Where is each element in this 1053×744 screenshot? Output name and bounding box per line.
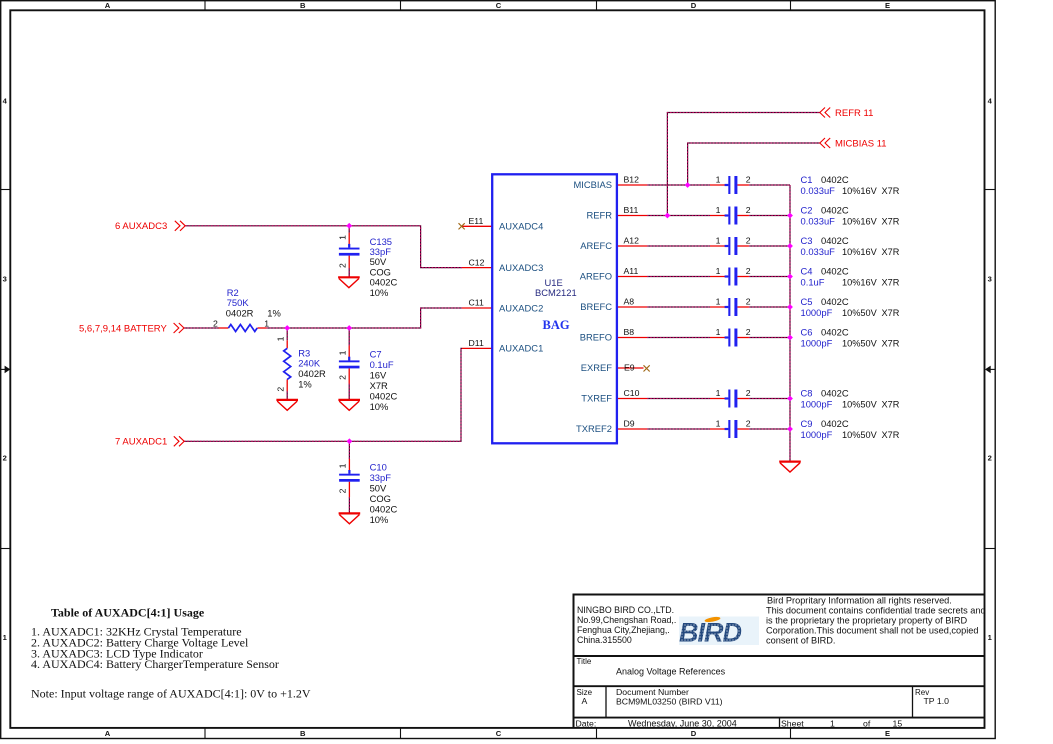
svg-text:X7R: X7R <box>882 430 900 440</box>
svg-text:3: 3 <box>3 275 7 284</box>
svg-text:COG: COG <box>370 493 391 504</box>
svg-text:X7R: X7R <box>882 247 900 257</box>
svg-text:Sheet: Sheet <box>781 718 804 728</box>
svg-text:Date:: Date: <box>576 718 597 728</box>
svg-text:1: 1 <box>830 718 835 728</box>
svg-text:0402C: 0402C <box>821 388 849 399</box>
svg-text:is the proprietary the proprie: is the proprietary the proprietary prope… <box>766 616 968 626</box>
svg-text:of: of <box>863 718 871 728</box>
svg-text:B: B <box>300 729 306 738</box>
svg-text:10%16V: 10%16V <box>842 216 878 226</box>
svg-text:B12: B12 <box>624 175 640 185</box>
svg-text:10%: 10% <box>370 287 389 298</box>
svg-text:1000pF: 1000pF <box>801 307 833 318</box>
svg-text:33pF: 33pF <box>370 472 392 483</box>
svg-text:2: 2 <box>746 236 751 246</box>
svg-text:50V: 50V <box>370 482 387 493</box>
svg-text:BREFC: BREFC <box>580 301 612 312</box>
svg-text:TXREF: TXREF <box>581 393 612 404</box>
svg-text:C12: C12 <box>469 257 485 267</box>
svg-text:C2: C2 <box>801 205 813 216</box>
svg-text:AREFO: AREFO <box>580 271 612 282</box>
svg-text:C3: C3 <box>801 235 813 246</box>
svg-text:2: 2 <box>213 319 218 329</box>
svg-text:0.1uF: 0.1uF <box>801 276 825 287</box>
svg-text:10%: 10% <box>370 401 389 412</box>
svg-text:0402C: 0402C <box>821 205 849 216</box>
svg-text:1: 1 <box>716 419 721 429</box>
svg-text:A8: A8 <box>624 297 635 307</box>
svg-text:This document contains confide: This document contains confidential trad… <box>766 606 986 616</box>
svg-text:2: 2 <box>988 454 992 463</box>
svg-text:C10: C10 <box>370 461 387 472</box>
svg-text:5,6,7,9,14 BATTERY: 5,6,7,9,14 BATTERY <box>79 323 167 334</box>
svg-text:X7R: X7R <box>882 399 900 409</box>
svg-text:MICBIAS 11: MICBIAS 11 <box>835 138 887 149</box>
svg-text:1: 1 <box>276 336 286 341</box>
svg-text:Note: Input voltage range of A: Note: Input voltage range of AUXADC[4:1]… <box>31 686 311 700</box>
svg-text:10%50V: 10%50V <box>842 399 878 409</box>
svg-text:10%16V: 10%16V <box>842 277 878 287</box>
svg-text:B: B <box>300 1 306 10</box>
svg-text:0.033uF: 0.033uF <box>801 246 836 257</box>
svg-text:X7R: X7R <box>882 277 900 287</box>
svg-text:0.033uF: 0.033uF <box>801 215 836 226</box>
svg-text:C6: C6 <box>801 327 813 338</box>
svg-text:1: 1 <box>716 175 721 185</box>
svg-text:A: A <box>582 696 588 706</box>
svg-text:AUXADC2: AUXADC2 <box>499 302 543 313</box>
svg-text:0402C: 0402C <box>821 327 849 338</box>
svg-text:C: C <box>496 729 502 738</box>
svg-text:1%: 1% <box>298 378 312 389</box>
svg-text:2: 2 <box>746 266 751 276</box>
svg-text:BAG: BAG <box>543 318 570 332</box>
svg-text:1000pF: 1000pF <box>801 398 833 409</box>
svg-text:E: E <box>885 729 890 738</box>
svg-text:A: A <box>105 729 111 738</box>
svg-text:A11: A11 <box>624 266 639 276</box>
svg-text:10%50V: 10%50V <box>842 338 878 348</box>
svg-text:D: D <box>691 1 697 10</box>
svg-text:A: A <box>105 1 111 10</box>
svg-text:AUXADC4: AUXADC4 <box>499 221 543 232</box>
svg-text:2: 2 <box>338 488 348 493</box>
svg-text:10%50V: 10%50V <box>842 308 878 318</box>
svg-text:Fenghua City,Zhejiang,.: Fenghua City,Zhejiang,. <box>577 625 670 635</box>
svg-text:0402C: 0402C <box>370 503 398 514</box>
svg-text:2: 2 <box>746 388 751 398</box>
svg-text:Corporation.This document shal: Corporation.This document shall not be u… <box>766 626 978 636</box>
svg-text:C8: C8 <box>801 388 813 399</box>
svg-text:1: 1 <box>337 235 347 240</box>
svg-text:16V: 16V <box>370 370 387 381</box>
svg-text:X7R: X7R <box>882 186 900 196</box>
svg-text:0402R: 0402R <box>226 307 254 318</box>
svg-text:0402C: 0402C <box>821 174 849 185</box>
svg-text:E11: E11 <box>469 216 484 226</box>
svg-text:D9: D9 <box>624 419 635 429</box>
svg-text:3: 3 <box>988 275 992 284</box>
svg-text:Title: Title <box>577 657 592 666</box>
svg-text:0402C: 0402C <box>821 266 849 277</box>
svg-text:BCM9ML03250 (BIRD V11): BCM9ML03250 (BIRD V11) <box>616 696 723 706</box>
svg-text:A12: A12 <box>624 236 640 246</box>
svg-text:0402C: 0402C <box>821 235 849 246</box>
svg-text:NINGBO BIRD CO.,LTD.: NINGBO BIRD CO.,LTD. <box>577 605 674 615</box>
svg-text:1: 1 <box>716 236 721 246</box>
svg-text:2: 2 <box>746 175 751 185</box>
svg-text:1: 1 <box>716 205 721 215</box>
svg-text:BREFO: BREFO <box>580 332 612 343</box>
svg-text:0402C: 0402C <box>821 418 849 429</box>
svg-text:1: 1 <box>716 297 721 307</box>
svg-text:TXREF2: TXREF2 <box>576 423 612 434</box>
svg-text:2: 2 <box>337 375 347 380</box>
svg-text:Table of AUXADC[4:1] Usage: Table of AUXADC[4:1] Usage <box>51 606 205 620</box>
svg-text:C11: C11 <box>469 298 484 308</box>
svg-text:1: 1 <box>716 266 721 276</box>
svg-text:AREFC: AREFC <box>580 240 612 251</box>
svg-text:2: 2 <box>3 454 7 463</box>
svg-text:0402R: 0402R <box>298 368 326 379</box>
svg-text:1%: 1% <box>267 307 281 318</box>
svg-text:BCM2121: BCM2121 <box>535 287 577 298</box>
svg-text:2: 2 <box>746 327 751 337</box>
svg-text:2: 2 <box>337 263 347 268</box>
svg-text:1: 1 <box>337 350 347 355</box>
svg-text:AUXADC3: AUXADC3 <box>499 262 543 273</box>
svg-text:10%16V: 10%16V <box>842 247 878 257</box>
svg-text:15: 15 <box>893 718 903 728</box>
svg-text:C: C <box>496 1 502 10</box>
svg-text:Document Number: Document Number <box>616 687 689 697</box>
svg-text:X7R: X7R <box>370 380 388 391</box>
svg-text:0402C: 0402C <box>821 296 849 307</box>
svg-text:C4: C4 <box>801 266 813 277</box>
svg-text:X7R: X7R <box>882 308 900 318</box>
svg-text:TP 1.0: TP 1.0 <box>924 696 950 706</box>
svg-text:Analog Voltage References: Analog Voltage References <box>616 666 726 676</box>
svg-text:Wednesday, June 30, 2004: Wednesday, June 30, 2004 <box>628 718 737 728</box>
svg-text:240K: 240K <box>298 358 321 369</box>
svg-text:Bird Propritary Information al: Bird Propritary Information all rights r… <box>767 596 952 606</box>
svg-text:6 AUXADC3: 6 AUXADC3 <box>115 221 167 232</box>
svg-text:1000pF: 1000pF <box>801 337 833 348</box>
svg-text:No.99,Chengshan Road,.: No.99,Chengshan Road,. <box>577 615 676 625</box>
svg-text:MICBIAS: MICBIAS <box>573 179 612 190</box>
svg-text:B11: B11 <box>624 205 639 215</box>
svg-text:B8: B8 <box>624 327 635 337</box>
svg-text:2: 2 <box>746 297 751 307</box>
svg-text:7 AUXADC1: 7 AUXADC1 <box>115 437 167 448</box>
svg-text:2: 2 <box>276 387 286 392</box>
svg-text:2: 2 <box>746 419 751 429</box>
svg-text:0402C: 0402C <box>370 391 398 402</box>
svg-text:E: E <box>885 1 890 10</box>
svg-text:1: 1 <box>338 463 348 468</box>
svg-text:D: D <box>691 729 697 738</box>
svg-text:4. AUXADC4: Battery ChargerTem: 4. AUXADC4: Battery ChargerTemperature S… <box>31 657 279 671</box>
svg-text:1: 1 <box>264 319 269 329</box>
svg-text:consent of BIRD.: consent of BIRD. <box>766 636 835 646</box>
svg-text:AUXADC1: AUXADC1 <box>499 343 543 354</box>
svg-text:C1: C1 <box>801 174 813 185</box>
svg-text:2: 2 <box>746 205 751 215</box>
svg-text:X7R: X7R <box>882 216 900 226</box>
svg-text:D11: D11 <box>469 338 484 348</box>
svg-text:1000pF: 1000pF <box>801 429 833 440</box>
svg-text:REFR 11: REFR 11 <box>835 108 873 119</box>
svg-text:C5: C5 <box>801 296 813 307</box>
svg-text:E9: E9 <box>624 362 635 372</box>
svg-text:0.033uF: 0.033uF <box>801 185 836 196</box>
svg-text:10%16V: 10%16V <box>842 186 878 196</box>
svg-text:C10: C10 <box>624 388 640 398</box>
svg-text:REFR: REFR <box>586 210 612 221</box>
svg-text:C9: C9 <box>801 418 813 429</box>
svg-text:1: 1 <box>716 388 721 398</box>
svg-text:10%50V: 10%50V <box>842 430 878 440</box>
svg-text:1: 1 <box>716 327 721 337</box>
svg-text:China.315500: China.315500 <box>577 635 632 645</box>
svg-text:0.1uF: 0.1uF <box>370 359 394 370</box>
svg-text:EXREF: EXREF <box>581 362 613 373</box>
svg-text:C7: C7 <box>370 349 382 360</box>
svg-text:X7R: X7R <box>882 338 900 348</box>
svg-text:10%: 10% <box>370 514 389 525</box>
